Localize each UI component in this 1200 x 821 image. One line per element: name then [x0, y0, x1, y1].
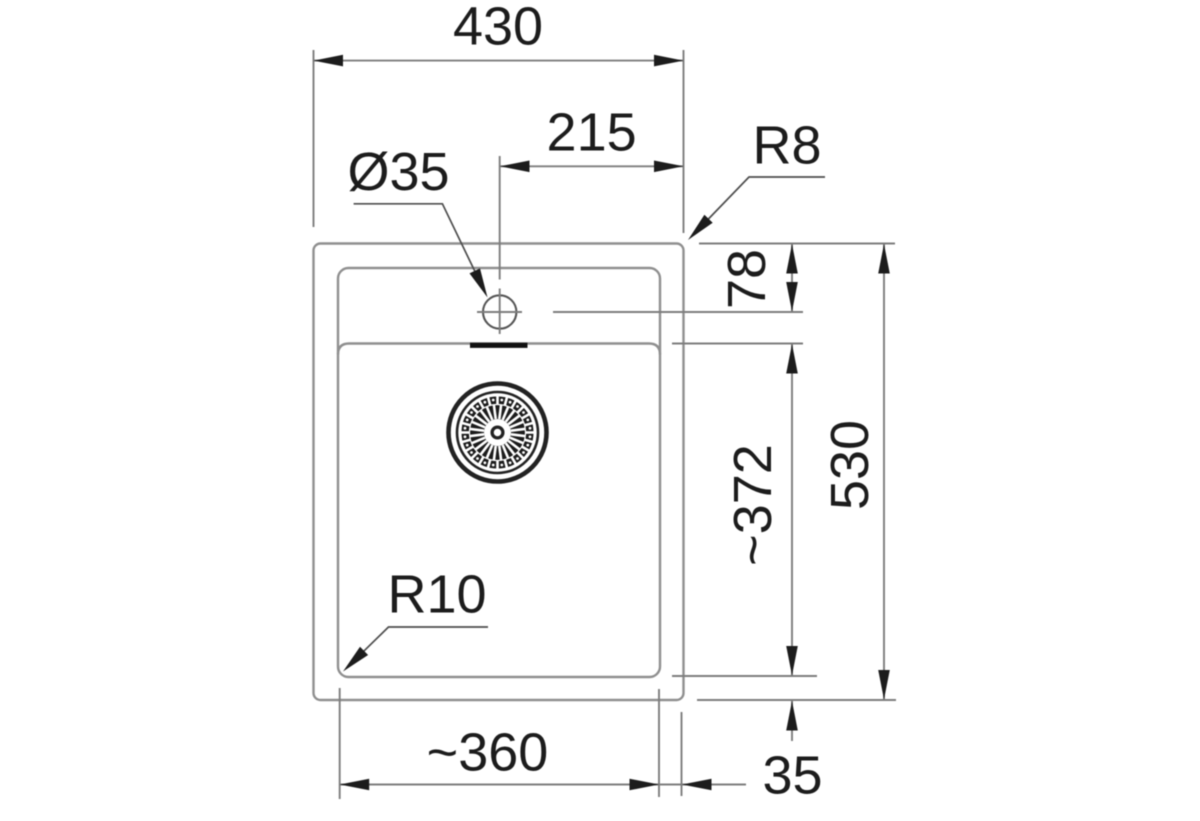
leader R10 [358, 627, 489, 657]
dim line ~372 [791, 344, 793, 677]
svg-text:~372: ~372 [723, 444, 783, 566]
arrow ~360 right [630, 779, 660, 791]
dim line 215 [500, 165, 684, 167]
dim 430/215 right extension [683, 50, 685, 233]
drain strainer dots [464, 399, 532, 467]
sink outer outline [314, 244, 684, 701]
svg-text:~360: ~360 [427, 723, 549, 783]
top right extension [699, 243, 895, 245]
bowl top right extension [672, 343, 803, 345]
svg-text:530: 530 [820, 420, 880, 510]
arrow 78 top [786, 244, 798, 274]
arrow 215 right [654, 161, 684, 173]
dim ~360 left extension [339, 688, 341, 799]
drain strainer row separator [470, 405, 526, 461]
faucet crosshair horizontal [477, 311, 522, 313]
drain strainer outer slots [461, 396, 535, 470]
faucet right extension [553, 311, 803, 313]
dim line 530 [883, 244, 885, 701]
arrow ~372 bottom [786, 646, 798, 676]
svg-text:R8: R8 [752, 116, 821, 176]
overflow mark [470, 343, 528, 348]
arrow 530 top [878, 244, 890, 274]
arrow 215 left [500, 161, 530, 173]
dim 35 vertical stub [791, 701, 793, 741]
faucet hole [483, 295, 516, 328]
arrow 530 bottom [878, 670, 890, 700]
arrow 430 left [314, 55, 344, 67]
faucet crosshair vertical [499, 289, 501, 335]
bowl top edge [338, 344, 660, 355]
arrow ~372 top [786, 344, 798, 374]
sink inner outline (deck + bowl) [338, 268, 660, 677]
dim line ~360 and 35 [340, 784, 746, 786]
svg-text:215: 215 [547, 103, 637, 163]
svg-text:78: 78 [717, 249, 777, 309]
drain outer ring [449, 384, 547, 482]
arrow 78 bottom [786, 282, 798, 312]
svg-text:Ø35: Ø35 [347, 142, 449, 202]
arrow 35 horizontal [682, 779, 712, 791]
arrow 430 right [654, 55, 684, 67]
drain strainer annulus [473, 408, 523, 458]
arrow R8 [688, 215, 713, 240]
dim 430 left extension [313, 50, 315, 227]
arrow D35 [470, 268, 488, 297]
leader R8 [702, 177, 825, 226]
dim line 78 [791, 244, 793, 313]
arrow ~360 left [340, 779, 370, 791]
arrow R10 [343, 647, 368, 672]
drain strainer inner slots [470, 405, 525, 460]
bowl bottom right extension [672, 675, 817, 677]
dim line 430 [314, 60, 684, 62]
drain second ring [457, 392, 538, 473]
drain center hole [492, 427, 503, 438]
centerline [499, 156, 501, 280]
svg-text:35: 35 [762, 746, 822, 806]
svg-text:430: 430 [453, 0, 543, 56]
dim ~360 right extension [658, 689, 660, 797]
arrow 35 vertical [786, 701, 798, 731]
leader D35 [354, 204, 480, 282]
drain inner disc [485, 420, 511, 446]
dim 35 extension [681, 712, 683, 796]
svg-text:R10: R10 [387, 565, 486, 625]
outer bottom right extension [697, 699, 896, 701]
